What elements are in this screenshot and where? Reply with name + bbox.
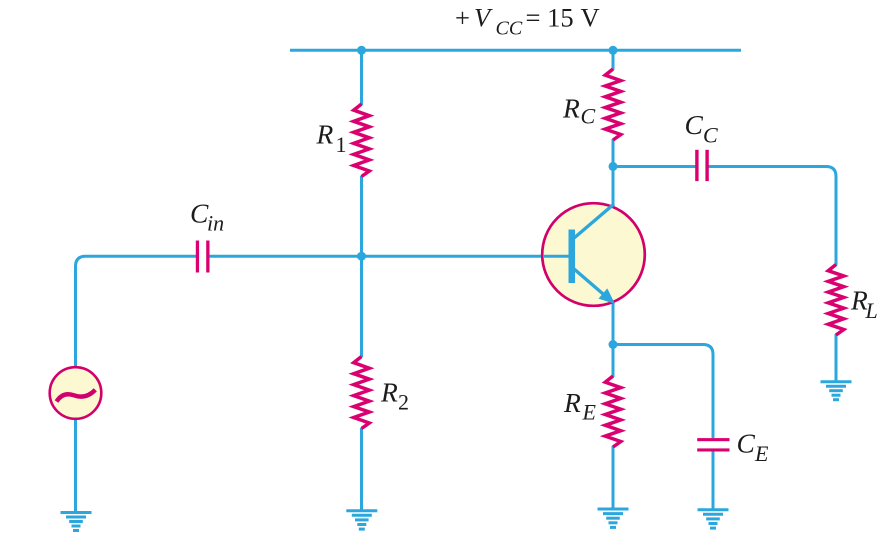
svg-text:E: E [754,441,769,466]
svg-text:R: R [316,119,334,150]
svg-text:R: R [563,387,581,418]
svg-text:V: V [474,3,493,33]
svg-text:C: C [703,123,718,148]
svg-text:C: C [581,104,596,129]
svg-text:R: R [562,93,580,124]
svg-text:CC: CC [496,18,523,40]
svg-text:V: V [581,3,600,33]
svg-text:C: C [685,109,704,140]
svg-text:= 15: = 15 [526,3,574,33]
svg-text:2: 2 [398,390,409,415]
svg-text:+: + [455,3,470,33]
svg-text:L: L [865,298,878,323]
svg-text:in: in [207,211,224,236]
svg-text:R: R [380,377,398,408]
svg-text:C: C [737,428,756,459]
svg-text:E: E [582,400,597,425]
svg-text:1: 1 [336,132,347,157]
